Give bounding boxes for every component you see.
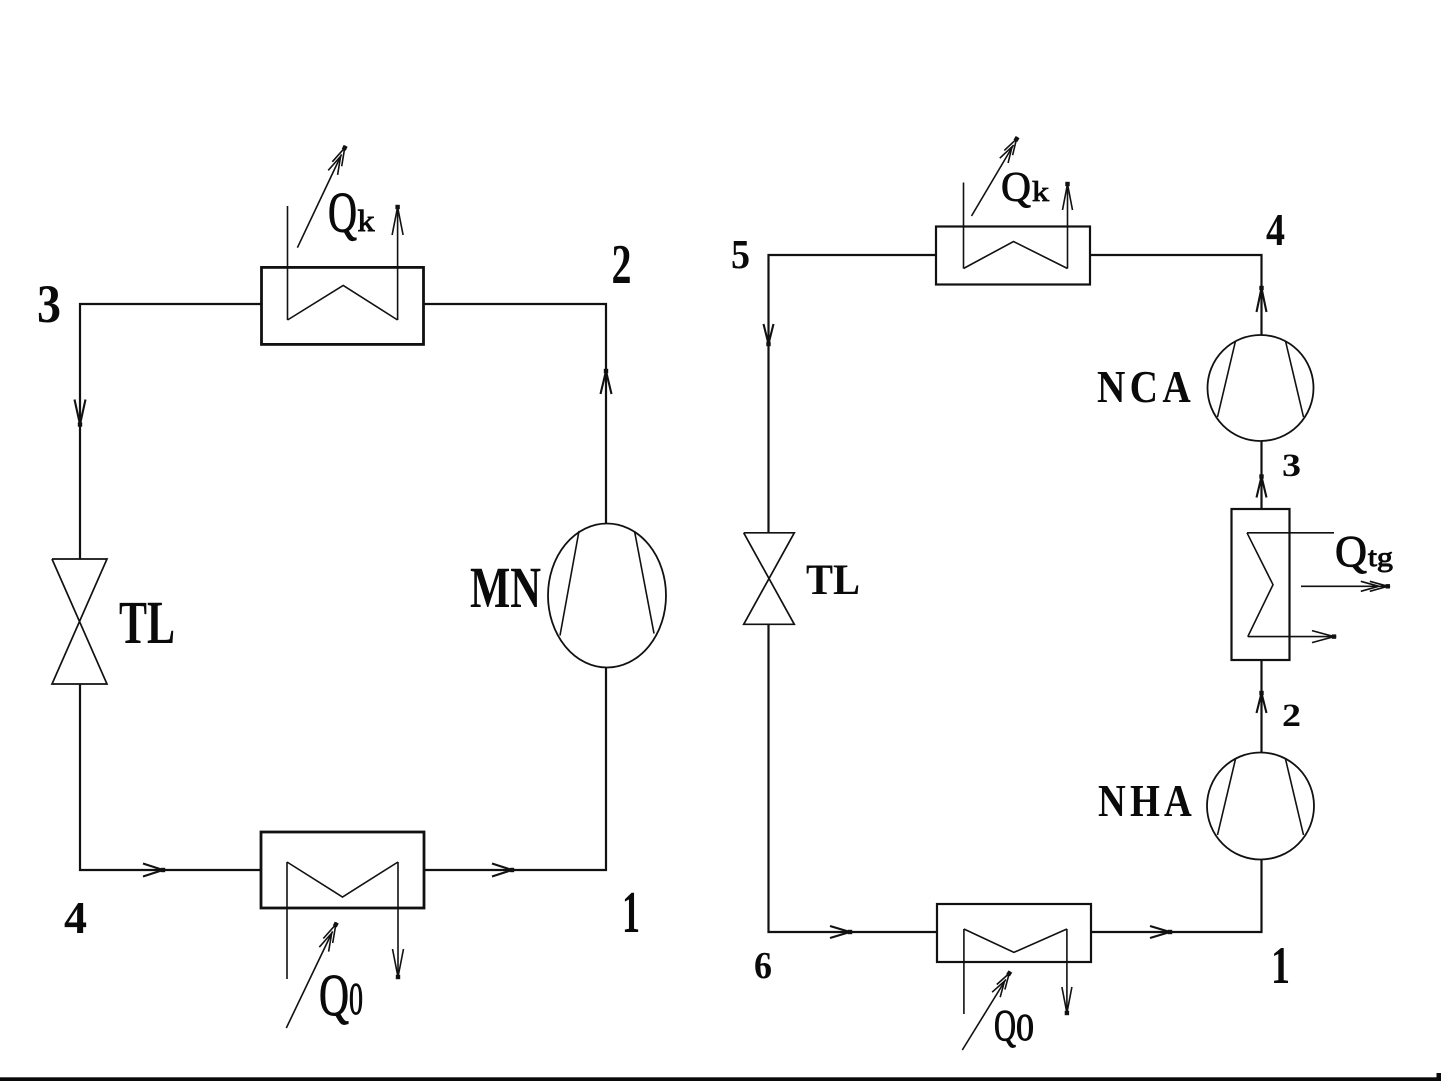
wire top-left segment with corner node 5 (769, 255, 937, 533)
heat flow arrow Q0 (right) (962, 970, 1012, 1050)
compressor NHA blade left (1218, 759, 1236, 835)
svg-text:MN: MN (470, 555, 541, 620)
svg-text:3: 3 (1282, 448, 1301, 484)
condenser box (right cycle) (936, 227, 1090, 285)
flow arrow up (3 to intercooler) (1257, 474, 1267, 497)
evaporator chevron (287, 862, 398, 897)
intercooler box Qtg (1232, 509, 1290, 660)
condenser box (left cycle) (262, 267, 424, 344)
svg-text:k: k (1032, 177, 1049, 208)
wire bottom-right segment with corner node 1 (424, 668, 606, 871)
svg-text:1: 1 (1271, 937, 1290, 995)
flow arrow right on bottom wire (evaporator to 1) (1150, 926, 1172, 938)
svg-text:0: 0 (349, 974, 363, 1024)
heat flow arrow Qk (right) (972, 136, 1020, 216)
evaporator medium inlet line (right) (963, 929, 965, 1014)
node label 1 (right) (1271, 937, 1290, 995)
svg-text:2: 2 (1282, 698, 1301, 734)
evaporator medium outlet line with down arrow (right) (1062, 929, 1072, 1015)
condenser chevron (288, 285, 398, 320)
node label 6 (754, 945, 772, 987)
intercooler top water line (1247, 532, 1334, 534)
label Qk (left) (328, 182, 375, 245)
svg-text:Q: Q (319, 962, 349, 1028)
node label 1 (left) (622, 879, 640, 945)
evaporator medium inlet line (286, 862, 288, 979)
compressor NCA blade left (1218, 341, 1236, 417)
flow arrow down on left wire (5 to TL) (764, 324, 774, 346)
wire NCA-top segment with corner node 4 (1090, 255, 1262, 335)
throttle valve TL (left cycle) (52, 559, 107, 684)
wire NHA to intercooler (1260, 660, 1262, 753)
bottom border rule (0, 1073, 1441, 1081)
svg-text:3: 3 (37, 274, 61, 334)
svg-text:2: 2 (612, 234, 632, 296)
intercooler zigzag (1247, 533, 1273, 637)
label NCA (1097, 361, 1195, 412)
condenser coolant inlet line (287, 206, 289, 320)
svg-text:NHA: NHA (1098, 775, 1196, 826)
flow arrow right on bottom wire (4 to evaporator) (143, 864, 165, 877)
flow arrow right on bottom wire (6 to evaporator) (830, 926, 852, 938)
compressor NCA blade right (1286, 341, 1304, 417)
svg-text:6: 6 (754, 945, 772, 987)
label Qtg (1335, 527, 1393, 576)
wire left-bottom segment with corner node 6 (769, 624, 938, 932)
svg-text:tg: tg (1368, 542, 1393, 572)
wire left-bottom segment with corner node 4 (80, 684, 262, 870)
flow arrow right on bottom wire (evaporator to 1) (492, 864, 514, 877)
svg-text:Q: Q (328, 182, 357, 245)
svg-text:4: 4 (1266, 205, 1285, 255)
node label 3 (right) (1282, 448, 1301, 484)
svg-text:TL: TL (806, 557, 860, 604)
label Qk (right) (1001, 165, 1049, 211)
heat flow arrow Q0 (left) (286, 922, 338, 1028)
compressor NHA blade right (1286, 759, 1304, 835)
evaporator box (right cycle) (937, 904, 1091, 962)
compressor MN blade left (560, 531, 579, 636)
flow arrow up on right wire (1 to MN) (601, 369, 612, 394)
svg-text:Q: Q (1001, 165, 1031, 211)
condenser coolant outlet line with up arrow (392, 205, 403, 320)
svg-text:4: 4 (64, 892, 87, 943)
node label 3 (37, 274, 61, 334)
evaporator medium outlet line with down arrow (393, 862, 404, 979)
label MN (470, 555, 541, 620)
node label 4 (64, 892, 87, 943)
node label 4 (right) (1266, 205, 1285, 255)
svg-text:Q: Q (1335, 527, 1367, 576)
throttle valve TL (right cycle) (744, 533, 795, 625)
node label 2 (612, 234, 632, 296)
label Q0 (right) (994, 1001, 1034, 1050)
svg-text:5: 5 (731, 231, 750, 277)
wire bottom-right segment with corner node 1 (1091, 860, 1262, 932)
intercooler bottom water line with arrow (1248, 631, 1336, 643)
label NHA (1098, 775, 1196, 826)
flow arrow up (2 above NHA) (1257, 691, 1267, 713)
svg-text:TL: TL (119, 590, 175, 657)
compressor NHA circle (1207, 753, 1314, 860)
compressor MN circle (548, 524, 666, 668)
compressor MN blade right (635, 531, 655, 634)
condenser chevron (right) (964, 242, 1068, 269)
evaporator box (left cycle) (261, 832, 424, 908)
node label 2 (right) (1282, 698, 1301, 734)
label Q0 (left) (319, 962, 363, 1028)
svg-text:k: k (358, 203, 376, 238)
heat flow arrow Qk (left) (297, 145, 347, 248)
condenser coolant outlet line with up arrow (right) (1063, 182, 1073, 269)
svg-text:1: 1 (622, 879, 640, 945)
label TL (left) (119, 590, 175, 657)
svg-text:0: 0 (1016, 1007, 1034, 1049)
wire right-top segment with corner node 2 (424, 304, 606, 524)
condenser coolant inlet line (right) (963, 183, 965, 269)
flow arrow down on left wire (3 to TL) (75, 400, 86, 427)
wire intercooler to NCA (1260, 441, 1262, 509)
node label 5 (731, 231, 750, 277)
label TL (right) (806, 557, 860, 604)
flow arrow up (NCA to 4) (1257, 286, 1267, 312)
svg-text:Q: Q (994, 1001, 1016, 1050)
svg-text:NCA: NCA (1097, 361, 1195, 412)
wire top-left segment with corner node 3 (80, 304, 262, 559)
compressor NCA circle (1208, 335, 1314, 441)
heat flow arrow Qtg (1301, 581, 1390, 591)
evaporator chevron (right) (964, 929, 1067, 952)
